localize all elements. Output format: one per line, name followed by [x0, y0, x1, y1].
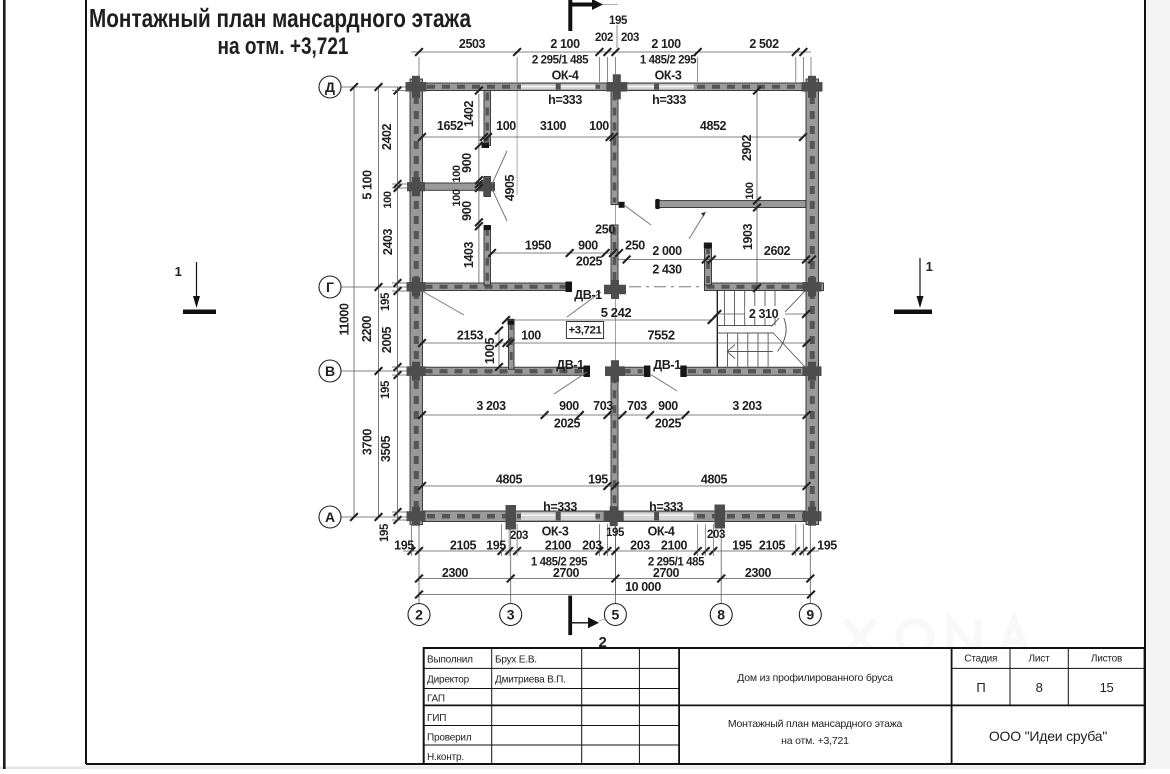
- svg-text:703: 703: [593, 399, 613, 413]
- svg-text:ОК-4: ОК-4: [648, 525, 675, 539]
- svg-text:2902: 2902: [740, 134, 754, 161]
- svg-text:2503: 2503: [459, 37, 486, 51]
- svg-text:2 000: 2 000: [652, 244, 682, 258]
- svg-text:Выполнил: Выполнил: [427, 655, 473, 666]
- svg-text:203: 203: [707, 529, 725, 541]
- svg-text:ДВ-1: ДВ-1: [556, 358, 584, 372]
- svg-text:195: 195: [606, 527, 625, 539]
- svg-text:2 310: 2 310: [749, 307, 779, 321]
- svg-text:1005: 1005: [483, 337, 497, 364]
- svg-text:2025: 2025: [655, 417, 682, 431]
- svg-text:100: 100: [382, 191, 394, 208]
- svg-text:195: 195: [588, 473, 608, 487]
- svg-text:703: 703: [627, 399, 647, 413]
- svg-text:250: 250: [595, 223, 615, 237]
- svg-text:100: 100: [589, 119, 609, 133]
- svg-text:1403: 1403: [462, 241, 476, 268]
- svg-text:Стадия: Стадия: [964, 654, 997, 665]
- svg-text:7552: 7552: [647, 328, 674, 343]
- svg-text:203: 203: [510, 530, 528, 542]
- svg-text:203: 203: [630, 539, 650, 553]
- svg-text:4852: 4852: [700, 119, 727, 133]
- svg-text:900: 900: [578, 239, 598, 253]
- svg-text:Г: Г: [326, 279, 334, 295]
- svg-text:100: 100: [521, 329, 541, 343]
- svg-text:Проверил: Проверил: [427, 733, 472, 744]
- svg-text:1: 1: [175, 264, 182, 279]
- svg-text:2602: 2602: [764, 244, 791, 258]
- svg-text:1950: 1950: [525, 239, 552, 253]
- svg-text:ОК-4: ОК-4: [552, 69, 579, 83]
- svg-text:2105: 2105: [759, 539, 786, 553]
- svg-text:5: 5: [612, 607, 620, 623]
- svg-text:900: 900: [460, 201, 474, 221]
- svg-text:2 100: 2 100: [651, 37, 681, 51]
- svg-text:1402: 1402: [462, 100, 476, 127]
- svg-text:2025: 2025: [576, 255, 603, 269]
- svg-text:Лист: Лист: [1029, 654, 1051, 665]
- svg-text:h=333: h=333: [649, 500, 683, 514]
- svg-text:2403: 2403: [381, 228, 395, 255]
- svg-text:Директор: Директор: [427, 675, 470, 686]
- svg-text:2: 2: [415, 607, 423, 623]
- svg-text:2 295/1 485: 2 295/1 485: [532, 55, 589, 67]
- svg-text:2105: 2105: [450, 539, 477, 553]
- svg-text:2402: 2402: [380, 123, 394, 150]
- svg-text:203: 203: [621, 32, 639, 44]
- svg-text:8: 8: [717, 607, 725, 623]
- svg-text:3 203: 3 203: [732, 399, 762, 413]
- svg-text:203: 203: [582, 539, 602, 553]
- svg-text:Брух Е.В.: Брух Е.В.: [495, 655, 537, 666]
- svg-text:9: 9: [806, 607, 814, 623]
- svg-text:Д: Д: [325, 79, 335, 95]
- svg-text:10 000: 10 000: [625, 580, 661, 594]
- svg-text:250: 250: [625, 239, 645, 253]
- svg-text:Н.контр.: Н.контр.: [427, 752, 464, 763]
- svg-text:2 100: 2 100: [550, 37, 580, 51]
- svg-text:2200: 2200: [360, 315, 374, 342]
- svg-text:100: 100: [496, 119, 516, 133]
- svg-text:1652: 1652: [437, 119, 464, 133]
- svg-text:2005: 2005: [380, 326, 394, 353]
- svg-text:2100: 2100: [545, 539, 572, 553]
- svg-text:15: 15: [1100, 680, 1114, 695]
- svg-text:3700: 3700: [361, 428, 375, 455]
- svg-text:1903: 1903: [741, 223, 755, 250]
- svg-text:2 430: 2 430: [652, 263, 682, 277]
- svg-text:195: 195: [380, 292, 392, 311]
- svg-text:195: 195: [609, 15, 628, 27]
- svg-text:Монтажный план мансардного эта: Монтажный план мансардного этажа: [728, 718, 903, 730]
- svg-text:3: 3: [507, 607, 515, 623]
- svg-text:В: В: [325, 363, 335, 379]
- svg-text:2700: 2700: [553, 566, 580, 580]
- svg-text:900: 900: [559, 399, 579, 413]
- svg-text:4805: 4805: [496, 473, 523, 487]
- svg-text:П: П: [976, 680, 985, 695]
- svg-text:ГАП: ГАП: [427, 694, 445, 705]
- svg-text:900: 900: [658, 399, 678, 413]
- svg-text:100: 100: [451, 165, 463, 182]
- svg-text:2300: 2300: [745, 566, 772, 580]
- svg-text:h=333: h=333: [543, 500, 577, 514]
- svg-text:195: 195: [486, 539, 506, 553]
- svg-text:на отм. +3,721: на отм. +3,721: [218, 33, 349, 60]
- svg-text:195: 195: [817, 539, 837, 553]
- svg-text:5 242: 5 242: [601, 305, 632, 320]
- svg-text:3100: 3100: [540, 119, 567, 133]
- svg-text:2100: 2100: [661, 539, 688, 553]
- svg-text:h=333: h=333: [652, 93, 686, 107]
- svg-text:100: 100: [744, 182, 756, 199]
- svg-text:8: 8: [1036, 680, 1043, 695]
- svg-text:Монтажный план мансардного эта: Монтажный план мансардного этажа: [89, 3, 471, 33]
- svg-text:ДВ-1: ДВ-1: [574, 288, 602, 302]
- svg-text:195: 195: [380, 380, 392, 399]
- svg-text:ДВ-1: ДВ-1: [653, 358, 681, 372]
- svg-text:ООО "Идеи сруба": ООО "Идеи сруба": [989, 728, 1108, 744]
- svg-text:4805: 4805: [701, 473, 728, 487]
- svg-text:195: 195: [732, 539, 752, 553]
- svg-text:2025: 2025: [554, 417, 581, 431]
- svg-text:2153: 2153: [457, 329, 484, 343]
- svg-text:ГИП: ГИП: [427, 713, 446, 724]
- svg-text:ОК-3: ОК-3: [655, 69, 682, 83]
- svg-text:195: 195: [394, 539, 414, 553]
- svg-text:1 485/2 295: 1 485/2 295: [640, 55, 697, 67]
- svg-text:2700: 2700: [653, 566, 680, 580]
- svg-text:3505: 3505: [379, 435, 393, 462]
- svg-text:11000: 11000: [338, 303, 352, 336]
- svg-text:А: А: [325, 509, 335, 525]
- svg-text:h=333: h=333: [548, 93, 582, 107]
- svg-text:Дом из профилированного бруса: Дом из профилированного бруса: [737, 672, 893, 684]
- svg-text:2300: 2300: [442, 566, 469, 580]
- svg-text:ОК-3: ОК-3: [542, 525, 569, 539]
- svg-text:Дмитриева В.П.: Дмитриева В.П.: [495, 675, 566, 686]
- svg-text:195: 195: [379, 523, 391, 542]
- svg-text:+3,721: +3,721: [569, 325, 602, 337]
- svg-text:Листов: Листов: [1091, 654, 1122, 665]
- svg-text:1: 1: [926, 259, 933, 274]
- svg-text:2 502: 2 502: [749, 37, 779, 51]
- svg-text:4905: 4905: [503, 174, 517, 201]
- svg-text:3 203: 3 203: [476, 399, 506, 413]
- svg-text:на отм. +3,721: на отм. +3,721: [781, 735, 849, 747]
- svg-text:5 100: 5 100: [361, 170, 375, 200]
- svg-text:202: 202: [595, 32, 613, 44]
